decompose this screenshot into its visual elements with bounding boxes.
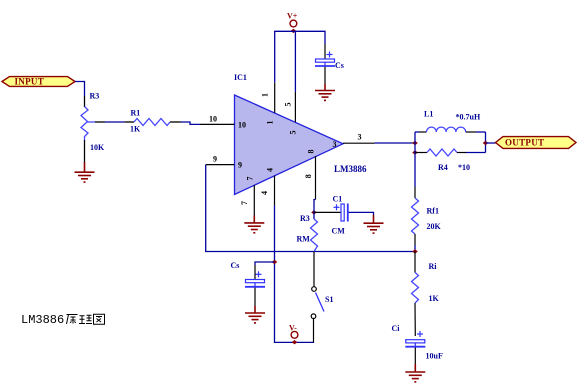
power V+ <box>287 12 298 34</box>
pin 7 <box>240 177 254 216</box>
svg-text:*0.7uH: *0.7uH <box>456 113 481 122</box>
resistor Ri 1K <box>412 252 440 337</box>
power V- <box>289 324 298 345</box>
port OUTPUT <box>496 137 577 149</box>
svg-text:4: 4 <box>265 168 274 172</box>
svg-text:INPUT: INPUT <box>15 77 45 87</box>
port INPUT <box>2 77 75 87</box>
wire L1 branch frame <box>415 132 486 153</box>
svg-text:Ri: Ri <box>429 262 438 271</box>
wire to Cs bottom <box>255 262 275 265</box>
svg-text:5: 5 <box>288 131 297 135</box>
node junction pin8/R3/C1 <box>311 210 317 214</box>
svg-text:OUTPUT: OUTPUT <box>505 138 544 148</box>
svg-text:9: 9 <box>213 155 217 164</box>
ground (under R3) <box>75 162 95 182</box>
svg-text:8: 8 <box>304 174 313 178</box>
ground (C1) <box>364 215 384 233</box>
pin 5 <box>284 92 298 135</box>
inductor L1 *0.7uH <box>419 110 481 133</box>
svg-text:RM: RM <box>297 235 311 244</box>
wire pin8 to node <box>314 200 316 213</box>
wire/lead node to C1 <box>314 211 341 213</box>
svg-text:4: 4 <box>260 191 269 195</box>
capacitor Cs (top, V+ bypass) <box>315 44 344 84</box>
pin 10 <box>200 114 246 129</box>
resistor R3 RM (mute) <box>297 212 318 251</box>
pin 3 <box>333 133 375 150</box>
node junction output right <box>483 141 489 145</box>
svg-text:R3: R3 <box>90 92 100 101</box>
svg-text:R1: R1 <box>131 109 141 118</box>
wire feedback pin9 to node <box>206 165 415 252</box>
svg-text:1: 1 <box>261 93 270 97</box>
wire pin3 to output node <box>375 142 416 144</box>
wire wiper to R1 <box>105 121 125 123</box>
svg-text:20K: 20K <box>427 222 442 231</box>
wire INPUT to R3 top <box>75 82 85 97</box>
svg-text:10K: 10K <box>90 143 105 152</box>
node junction feedback <box>412 249 418 253</box>
svg-text:10: 10 <box>209 114 217 123</box>
ground (Cs bottom) <box>245 306 265 323</box>
title CJK 原 <box>67 315 78 325</box>
V+ rail wires <box>275 31 325 92</box>
svg-text:8: 8 <box>307 150 316 154</box>
resistor R1 1K <box>125 109 181 134</box>
op-amp IC1 LM3886 <box>234 73 367 195</box>
svg-text:S1: S1 <box>325 295 333 304</box>
svg-text:Cs: Cs <box>335 61 344 70</box>
svg-text:Cs: Cs <box>231 261 240 270</box>
svg-text:5: 5 <box>284 103 293 107</box>
node junction output left top <box>412 141 418 145</box>
svg-text:1K: 1K <box>429 294 440 303</box>
svg-text:3: 3 <box>333 140 337 149</box>
wire to OUTPUT port <box>486 142 496 144</box>
pin 8 <box>304 150 316 200</box>
wire R1 to pin 10 <box>181 122 200 124</box>
svg-text:L1: L1 <box>424 110 433 119</box>
svg-text:LM3886: LM3886 <box>334 164 367 174</box>
ground (Cs top) <box>315 84 335 100</box>
svg-text:Ci: Ci <box>392 324 401 333</box>
svg-text:9: 9 <box>238 161 242 170</box>
node junction Cs bottom <box>272 260 278 264</box>
svg-text:CM: CM <box>332 227 346 236</box>
title CJK 理 <box>79 315 92 323</box>
resistor R4 *10 <box>415 149 470 172</box>
switch S1 <box>311 252 333 343</box>
svg-text:R3: R3 <box>300 214 310 223</box>
ground (pin 7) <box>244 216 264 233</box>
svg-text:R4: R4 <box>438 163 448 172</box>
svg-text:3: 3 <box>358 133 362 142</box>
svg-text:7: 7 <box>240 201 249 205</box>
svg-text:10uF: 10uF <box>426 352 443 361</box>
title LM3886 schematic <box>21 313 64 327</box>
wire pin4 down to V- rail <box>275 206 315 343</box>
svg-text:LM3886: LM3886 <box>21 313 64 327</box>
pin 1 <box>261 83 275 125</box>
wire C1 to ground <box>349 212 374 215</box>
svg-text:7: 7 <box>245 177 254 181</box>
svg-text:10: 10 <box>238 120 246 129</box>
capacitor Cs (bottom, V- bypass) <box>231 261 266 306</box>
pin 9 <box>206 155 242 170</box>
pin 4 <box>260 168 275 206</box>
node junction output left bottom <box>412 150 418 154</box>
ground (Ci) <box>405 364 425 382</box>
svg-text:1: 1 <box>266 121 275 125</box>
capacitor C1 CM <box>332 195 348 236</box>
title CJK 图 <box>94 314 105 324</box>
svg-text:V+: V+ <box>287 12 298 21</box>
potentiometer R3 10K <box>81 92 105 163</box>
capacitor Ci 10uF <box>392 324 443 364</box>
svg-text:IC1: IC1 <box>234 73 247 82</box>
svg-text:C1: C1 <box>333 195 343 204</box>
svg-text:1K: 1K <box>130 125 141 134</box>
resistor Rf1 20K <box>412 153 442 252</box>
svg-text:*10: *10 <box>458 163 470 172</box>
svg-text:Rf1: Rf1 <box>427 207 439 216</box>
